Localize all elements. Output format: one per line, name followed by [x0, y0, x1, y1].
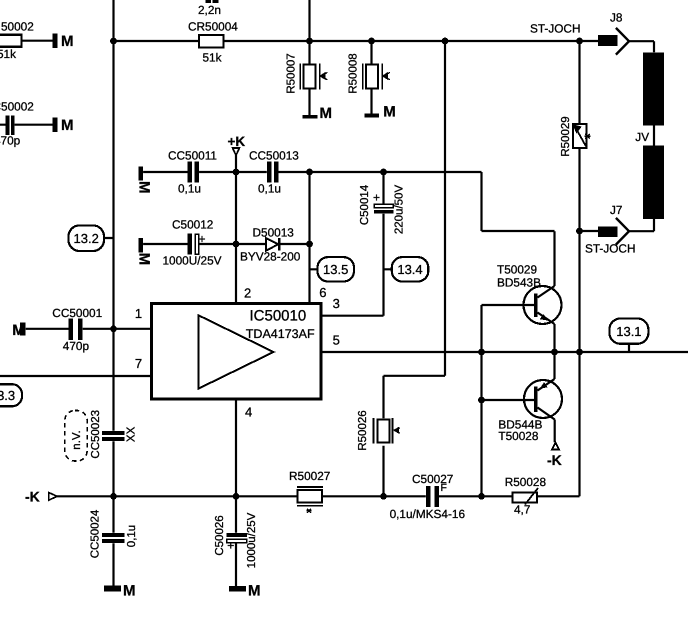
svg-text:T50028: T50028	[498, 429, 538, 443]
svg-text:51k: 51k	[0, 47, 16, 61]
svg-text:M: M	[320, 105, 333, 122]
svg-text:1000U/25V: 1000U/25V	[163, 254, 222, 268]
svg-text:CC50001: CC50001	[52, 306, 102, 320]
svg-text:M: M	[248, 583, 261, 600]
svg-text:CR50004: CR50004	[188, 19, 238, 33]
svg-text:M: M	[12, 322, 25, 339]
svg-text:R50008: R50008	[348, 53, 360, 93]
svg-text:1000u/25V: 1000u/25V	[246, 512, 258, 568]
svg-text:CC50024: CC50024	[90, 509, 102, 558]
svg-text:5: 5	[333, 333, 340, 348]
svg-text:CC50002: CC50002	[0, 99, 34, 113]
svg-text:0,1u: 0,1u	[258, 181, 281, 195]
svg-text:0,1u: 0,1u	[126, 525, 138, 547]
svg-text:R50027: R50027	[289, 469, 330, 483]
svg-text:+: +	[373, 191, 380, 205]
svg-text:R50026: R50026	[357, 410, 369, 450]
svg-text:J7: J7	[610, 203, 622, 217]
svg-text:ST-JOCH: ST-JOCH	[530, 22, 580, 36]
svg-text:13.4: 13.4	[397, 262, 422, 277]
svg-text:2: 2	[244, 286, 251, 301]
svg-text:470p: 470p	[0, 134, 21, 148]
svg-text:T50029: T50029	[497, 262, 537, 276]
svg-text:1: 1	[135, 306, 142, 321]
svg-text:JV: JV	[635, 130, 649, 144]
svg-text:C50027: C50027	[412, 472, 453, 486]
svg-text:13.3: 13.3	[0, 388, 15, 403]
svg-text:M: M	[383, 104, 396, 121]
svg-text:+: +	[227, 539, 234, 553]
svg-text:-K: -K	[547, 452, 562, 468]
svg-text:M: M	[61, 117, 74, 134]
svg-text:R50028: R50028	[505, 475, 547, 489]
svg-text:51k: 51k	[203, 51, 222, 65]
svg-text:470p: 470p	[63, 339, 90, 353]
svg-text:220u/50V: 220u/50V	[394, 185, 406, 235]
svg-text:C50026: C50026	[214, 515, 226, 555]
svg-text:M: M	[61, 33, 74, 50]
svg-text:IC50010: IC50010	[250, 308, 307, 325]
svg-text:M: M	[123, 582, 136, 599]
svg-text:M: M	[135, 181, 152, 194]
svg-text:4: 4	[245, 404, 252, 419]
svg-text:ST-JOCH: ST-JOCH	[585, 242, 635, 256]
svg-text:0,1u: 0,1u	[178, 182, 201, 196]
svg-text:XX: XX	[126, 426, 138, 442]
svg-text:13.1: 13.1	[616, 324, 641, 339]
svg-text:D50013: D50013	[253, 225, 295, 239]
svg-text:3: 3	[333, 296, 340, 311]
svg-text:R50007: R50007	[286, 53, 298, 93]
svg-text:F: F	[441, 482, 447, 494]
svg-text:+: +	[199, 232, 206, 246]
svg-text:4,7: 4,7	[514, 502, 530, 516]
svg-text:CC50013: CC50013	[249, 148, 299, 162]
svg-text:50002: 50002	[1, 19, 34, 33]
svg-text:7: 7	[135, 356, 142, 371]
svg-text:BYV28-200: BYV28-200	[240, 250, 301, 264]
svg-text:+K: +K	[228, 134, 246, 149]
svg-text:TDA4173AF: TDA4173AF	[246, 327, 315, 341]
svg-text:n.V.: n.V.	[71, 430, 83, 449]
svg-text:BD543B: BD543B	[497, 275, 541, 289]
svg-text:13.5: 13.5	[323, 262, 348, 277]
svg-text:-K: -K	[25, 489, 40, 505]
svg-text:CC50011: CC50011	[168, 149, 217, 163]
svg-text:6: 6	[319, 285, 326, 300]
svg-text:0,1u/MKS4-16: 0,1u/MKS4-16	[390, 507, 466, 521]
svg-text:M: M	[135, 253, 152, 266]
svg-text:R50029: R50029	[560, 116, 572, 156]
svg-text:CC50023: CC50023	[90, 410, 102, 459]
svg-text:C50012: C50012	[172, 217, 213, 231]
svg-text:C50014: C50014	[359, 184, 371, 225]
svg-text:J8: J8	[610, 11, 623, 25]
svg-text:13.2: 13.2	[74, 231, 99, 246]
svg-text:2,2n: 2,2n	[198, 3, 221, 17]
